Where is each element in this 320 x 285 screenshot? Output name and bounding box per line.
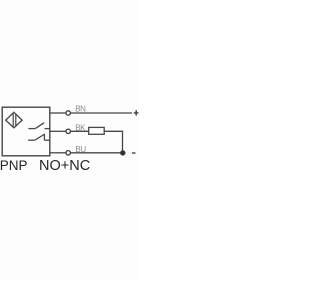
svg-text:BU: BU bbox=[75, 145, 86, 154]
sensor symbol double bar bbox=[12, 114, 14, 127]
NO contact switch bbox=[28, 123, 49, 129]
svg-text:NO+NC: NO+NC bbox=[39, 158, 90, 174]
wire BK bbox=[50, 130, 66, 132]
svg-text:BN: BN bbox=[75, 105, 86, 114]
NC contact switch bbox=[28, 134, 49, 140]
svg-text:PNP: PNP bbox=[0, 158, 27, 173]
svg-text:BK: BK bbox=[75, 124, 86, 133]
wire resistor to corner bbox=[104, 131, 122, 153]
wire BU to junction bbox=[71, 152, 123, 154]
terminal BU bbox=[66, 151, 70, 155]
minus terminal bbox=[132, 152, 136, 154]
wire BU bbox=[50, 152, 66, 154]
sensor body box bbox=[2, 107, 50, 156]
wire BN bbox=[50, 112, 66, 114]
terminal BK bbox=[66, 129, 70, 133]
plus terminal bbox=[134, 110, 139, 115]
junction dot bbox=[120, 150, 125, 155]
inductive sensor symbol (diamond) bbox=[6, 112, 22, 128]
resistor load bbox=[89, 127, 105, 134]
wire BN to plus bbox=[71, 112, 132, 114]
terminal BN bbox=[66, 111, 70, 115]
wire BK to resistor bbox=[71, 130, 89, 132]
